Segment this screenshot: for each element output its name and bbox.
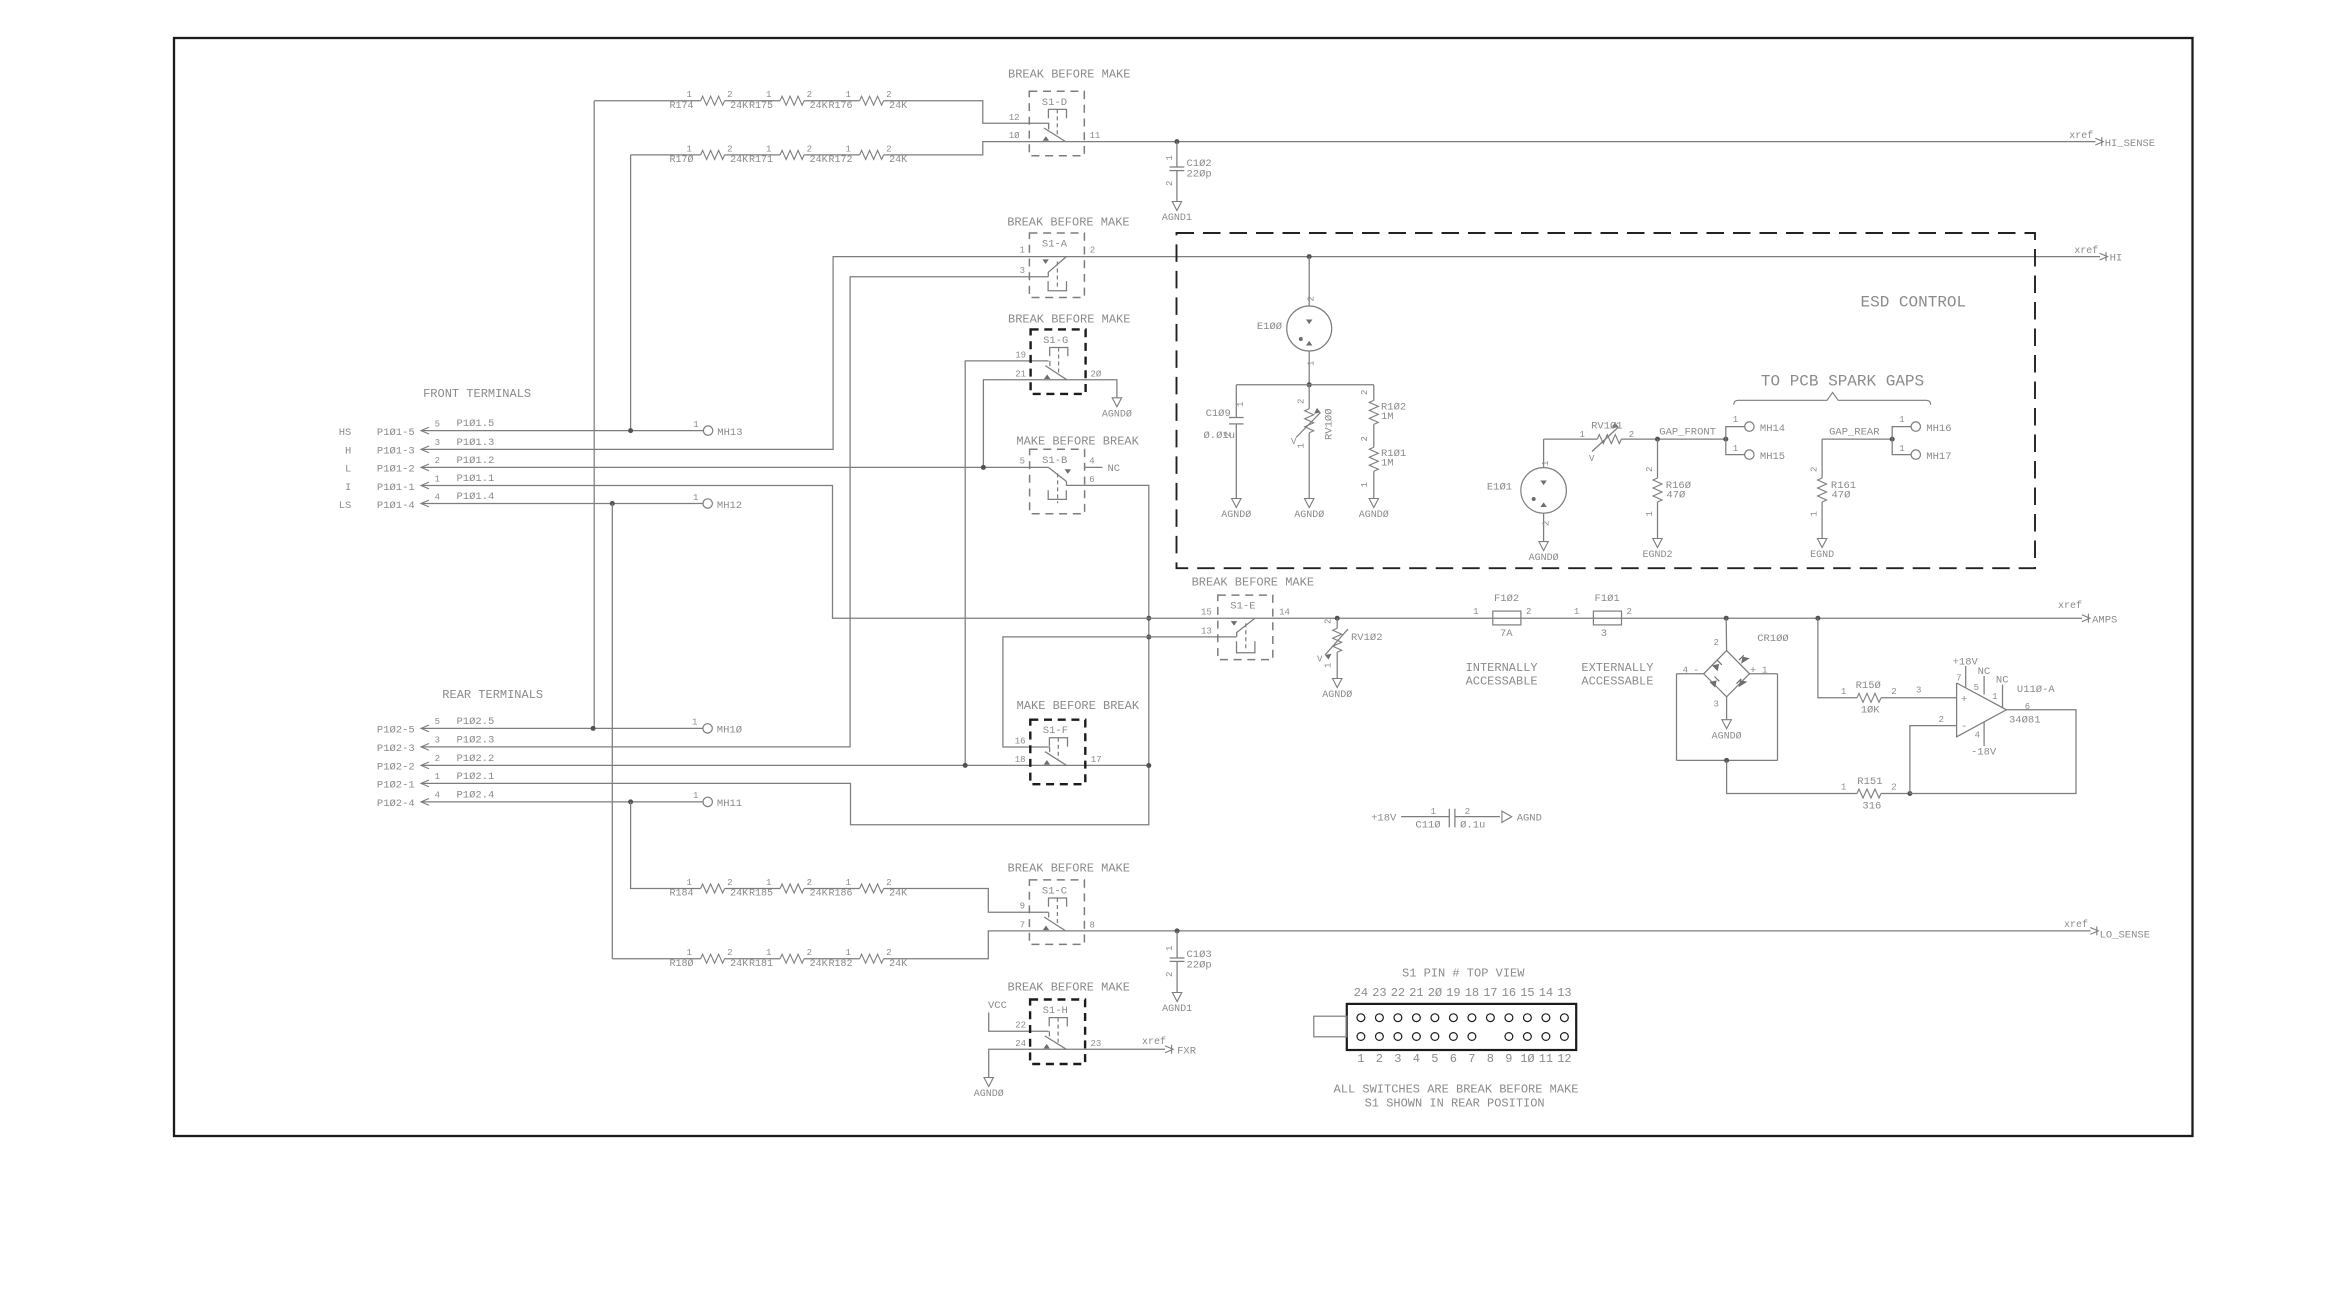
- wire GAP_REAR: [1822, 427, 1895, 442]
- wire E100 junction row: [1236, 382, 1374, 387]
- label ESD CONTROL: [1861, 294, 1967, 312]
- svg-text:1: 1: [1307, 361, 1317, 366]
- svg-text:AGNDØ: AGNDØ: [1322, 689, 1352, 701]
- svg-text:V: V: [1291, 437, 1297, 447]
- label BREAK BEFORE MAKE (S1-D): [1008, 67, 1130, 81]
- capacitor C102: [1165, 139, 1212, 201]
- svg-text:4: 4: [1975, 731, 1980, 741]
- resistor R172: [828, 144, 907, 166]
- svg-text:1: 1: [693, 791, 698, 801]
- svg-text:AGNDØ: AGNDØ: [974, 1088, 1004, 1100]
- svg-text:23: 23: [1091, 1039, 1102, 1049]
- terminal P101-5: [339, 418, 495, 439]
- svg-text:16: 16: [1502, 986, 1516, 1000]
- svg-text:7: 7: [1956, 674, 1961, 684]
- ground AGND0 (S1-H): [974, 1078, 1004, 1101]
- svg-text:6: 6: [1450, 1052, 1457, 1066]
- switch S1-F: [1015, 720, 1102, 785]
- svg-text:AGNDØ: AGNDØ: [1529, 552, 1559, 564]
- wire E101 to GAP_FRONT: [1544, 438, 1726, 440]
- svg-text:3: 3: [1713, 700, 1718, 710]
- svg-text:5: 5: [1020, 457, 1025, 467]
- connector S1 body: [1347, 1004, 1576, 1050]
- svg-text:2: 2: [1542, 521, 1552, 526]
- wire P102-3 row to S1-A pin 3: [421, 277, 1048, 747]
- label MAKE BEFORE BREAK (S1-F): [1017, 699, 1140, 713]
- svg-text:2: 2: [807, 144, 812, 154]
- ground AGND0 (S1-G pin 20): [1102, 398, 1132, 421]
- svg-text:1: 1: [1899, 444, 1904, 454]
- svg-text:4: 4: [1683, 666, 1688, 676]
- svg-text:22Øp: 22Øp: [1187, 960, 1212, 972]
- svg-text:P1Ø1-3: P1Ø1-3: [377, 446, 415, 458]
- svg-text:BREAK BEFORE MAKE: BREAK BEFORE MAKE: [1007, 216, 1129, 230]
- svg-text:1: 1: [1733, 444, 1738, 454]
- svg-text:R176: R176: [828, 101, 852, 112]
- terminal P102-4: [377, 789, 494, 810]
- svg-text:9: 9: [1020, 902, 1025, 912]
- svg-text:2: 2: [1165, 181, 1175, 186]
- svg-text:1Ø: 1Ø: [1520, 1052, 1534, 1066]
- varistor RV102: [1317, 616, 1383, 679]
- svg-text:6: 6: [1089, 475, 1094, 485]
- svg-text:1: 1: [1541, 461, 1551, 466]
- svg-text:24K: 24K: [810, 155, 828, 166]
- terminal P101-4: [339, 491, 495, 512]
- wire R151 to junction: [1881, 791, 1912, 796]
- svg-text:1: 1: [1236, 402, 1246, 407]
- svg-text:24K: 24K: [730, 155, 748, 166]
- svg-text:24K: 24K: [810, 889, 828, 900]
- resistor R102: [1360, 385, 1406, 425]
- svg-text:P1Ø1-5: P1Ø1-5: [377, 427, 415, 439]
- svg-text:6: 6: [2025, 702, 2030, 712]
- svg-text:NC: NC: [1108, 463, 1121, 475]
- wire R170 chain to S1-D pin 10 and HI_SENSE line: [631, 142, 2096, 155]
- svg-text:47Ø: 47Ø: [1832, 490, 1851, 502]
- svg-text:15: 15: [1201, 608, 1212, 618]
- mounting hole MH10: [692, 718, 742, 737]
- svg-text:3: 3: [1394, 1052, 1401, 1066]
- svg-text:R186: R186: [828, 889, 852, 900]
- svg-text:2: 2: [727, 948, 732, 958]
- svg-text:2: 2: [1891, 687, 1896, 697]
- svg-text:2: 2: [1360, 390, 1370, 395]
- svg-text:AGNDØ: AGNDØ: [1712, 730, 1742, 742]
- svg-text:xref: xref: [2069, 130, 2093, 142]
- svg-text:17: 17: [1091, 755, 1102, 765]
- wire bus D / R184 chain to S1-C pin 9: [631, 802, 1049, 912]
- svg-text:RV1Ø1: RV1Ø1: [1591, 421, 1623, 433]
- terminal P101-1: [345, 473, 494, 494]
- svg-text:1ØK: 1ØK: [1861, 705, 1881, 717]
- svg-text:24K: 24K: [730, 101, 748, 112]
- svg-text:24K: 24K: [889, 959, 907, 970]
- svg-text:34Ø81: 34Ø81: [2009, 715, 2041, 727]
- label BREAK BEFORE MAKE (S1-H): [1008, 980, 1130, 994]
- svg-text:2: 2: [1645, 467, 1655, 472]
- svg-text:8: 8: [1090, 921, 1095, 931]
- svg-text:-: -: [1693, 665, 1699, 677]
- svg-text:2: 2: [727, 878, 732, 888]
- fuse F101: [1574, 593, 1632, 640]
- svg-text:1M: 1M: [1381, 458, 1394, 470]
- resistor R150: [1841, 680, 1922, 717]
- svg-text:7A: 7A: [1500, 628, 1513, 640]
- svg-text:P1Ø2.1: P1Ø2.1: [457, 771, 495, 783]
- mounting hole MH17: [1892, 439, 1951, 463]
- switch S1-B: [1020, 449, 1095, 514]
- svg-text:2: 2: [886, 948, 891, 958]
- svg-text:5: 5: [1431, 1052, 1438, 1066]
- svg-text:2: 2: [1713, 638, 1718, 648]
- connector E101: [1487, 439, 1567, 541]
- svg-text:GAP_REAR: GAP_REAR: [1829, 427, 1880, 439]
- svg-text:2: 2: [727, 144, 732, 154]
- svg-text:P1Ø2-4: P1Ø2-4: [377, 798, 415, 810]
- svg-text:RV1ØØ: RV1ØØ: [1324, 408, 1336, 440]
- svg-text:7: 7: [1468, 1052, 1475, 1066]
- svg-text:5: 5: [1974, 683, 1979, 693]
- svg-text:BREAK BEFORE MAKE: BREAK BEFORE MAKE: [1008, 861, 1130, 875]
- wire S1-G pins 21-20 through switch: [1031, 379, 1086, 381]
- svg-text:P1Ø2-5: P1Ø2-5: [377, 725, 415, 737]
- svg-text:3: 3: [1601, 628, 1607, 640]
- wire bus B (R170 chain / P101-5): [630, 155, 632, 431]
- terminal P102-2: [377, 753, 494, 774]
- ground AGND0 (RV100): [1294, 499, 1324, 522]
- svg-text:EGND2: EGND2: [1642, 550, 1672, 561]
- svg-text:R17Ø: R17Ø: [669, 154, 693, 166]
- svg-text:1: 1: [1841, 687, 1846, 697]
- junction GAP_FRONT to MH14/MH15: [1723, 437, 1728, 442]
- labels S1 pins 24-13: [1354, 986, 1572, 1000]
- svg-text:AGNDØ: AGNDØ: [1221, 509, 1251, 521]
- wire P101-3 row to S1-A pin 1 and HI line: [421, 257, 2100, 450]
- svg-text:3: 3: [1020, 266, 1025, 276]
- svg-text:3: 3: [1916, 686, 1921, 696]
- brace spark gaps: [1734, 392, 1931, 404]
- svg-text:4: 4: [435, 791, 440, 801]
- svg-text:P1Ø1-4: P1Ø1-4: [377, 500, 415, 512]
- resistor R176: [828, 90, 907, 112]
- connector E100: [1257, 254, 1332, 385]
- svg-text:TO PCB SPARK GAPS: TO PCB SPARK GAPS: [1761, 372, 1924, 390]
- wire AMPS to R150 to op-amp +: [1818, 618, 1957, 698]
- svg-text:P1Ø1.4: P1Ø1.4: [457, 491, 495, 503]
- varistor RV101: [1579, 421, 1634, 465]
- svg-text:1: 1: [687, 948, 692, 958]
- svg-text:4: 4: [1089, 457, 1094, 467]
- svg-text:xref: xref: [2058, 600, 2082, 612]
- svg-text:1: 1: [1645, 511, 1655, 516]
- svg-text:P1Ø2-2: P1Ø2-2: [377, 762, 415, 774]
- svg-text:24K: 24K: [889, 155, 907, 166]
- resistor R161: [1810, 439, 1857, 538]
- svg-text:+: +: [1750, 665, 1756, 677]
- svg-text:13: 13: [1557, 986, 1571, 1000]
- svg-text:S1-H: S1-H: [1043, 1005, 1068, 1017]
- diode bridge CR100: [1677, 618, 1789, 760]
- svg-text:P1Ø2.2: P1Ø2.2: [457, 753, 495, 765]
- resistor R175: [749, 90, 828, 112]
- svg-text:S1-D: S1-D: [1042, 97, 1067, 109]
- op-amp U110-A: [1953, 657, 2056, 759]
- svg-text:S1-B: S1-B: [1042, 455, 1067, 467]
- label BREAK BEFORE MAKE (S1-A): [1007, 216, 1129, 230]
- wire P101-5 to MH13: [421, 428, 703, 433]
- svg-text:1: 1: [687, 90, 692, 100]
- svg-text:1: 1: [1165, 155, 1175, 160]
- label MAKE BEFORE BREAK (S1-B): [1016, 435, 1139, 449]
- svg-text:R175: R175: [749, 101, 773, 112]
- svg-text:BREAK BEFORE MAKE: BREAK BEFORE MAKE: [1008, 980, 1130, 994]
- switch S1-A: [1020, 233, 1096, 298]
- svg-text:24K: 24K: [730, 889, 748, 900]
- wire P101-1 row / S1-E pin 15 / AMPS line: [421, 486, 2082, 619]
- svg-text:R181: R181: [749, 959, 773, 970]
- wire CR100 pin3 to ground: [1726, 697, 1728, 720]
- junction S1-B6 net dots: [1146, 616, 1151, 768]
- label FRONT TERMINALS: [423, 387, 531, 401]
- border frame: [174, 38, 2193, 1136]
- svg-text:P1Ø2.5: P1Ø2.5: [457, 716, 495, 728]
- svg-text:2: 2: [1810, 467, 1820, 472]
- svg-text:47Ø: 47Ø: [1666, 490, 1685, 502]
- svg-text:EGND: EGND: [1810, 550, 1834, 561]
- wire P102-5 to MH10: [421, 726, 703, 731]
- ground AGND0 (R101): [1359, 499, 1389, 522]
- svg-text:1: 1: [766, 144, 771, 154]
- svg-text:24K: 24K: [889, 889, 907, 900]
- mounting hole MH12: [693, 493, 742, 512]
- svg-text:P1Ø1.1: P1Ø1.1: [457, 473, 495, 485]
- svg-text:1: 1: [1992, 692, 1997, 702]
- svg-text:REAR TERMINALS: REAR TERMINALS: [442, 688, 543, 702]
- svg-text:2Ø: 2Ø: [1428, 986, 1442, 1000]
- ground EGND: [1810, 539, 1834, 562]
- svg-text:AGNDØ: AGNDØ: [1294, 509, 1324, 521]
- switch S1-H: [1015, 1000, 1101, 1065]
- wire S1-G pin 21 from P101-2 row: [983, 380, 1030, 468]
- svg-text:VCC: VCC: [988, 1000, 1007, 1012]
- svg-text:18: 18: [1465, 986, 1479, 1000]
- svg-text:AGND: AGND: [1517, 813, 1542, 825]
- svg-text:AMPS: AMPS: [2092, 615, 2117, 627]
- svg-text:P1Ø1-2: P1Ø1-2: [377, 464, 415, 476]
- svg-text:HS: HS: [339, 427, 352, 439]
- svg-text:2: 2: [886, 90, 891, 100]
- svg-text:P1Ø2-3: P1Ø2-3: [377, 743, 415, 755]
- svg-text:2: 2: [1324, 619, 1334, 624]
- svg-text:14: 14: [1539, 986, 1553, 1000]
- wire feedback to op-amp -: [1910, 715, 1957, 794]
- wire op-amp output feedback loop: [1910, 710, 2076, 794]
- wire P102-2 row to S1-F pins 18/17: [421, 763, 1149, 768]
- svg-text:P1Ø2-1: P1Ø2-1: [377, 780, 415, 792]
- svg-text:2: 2: [886, 144, 891, 154]
- svg-text:1: 1: [693, 420, 698, 430]
- svg-text:LS: LS: [339, 500, 352, 512]
- svg-text:1: 1: [846, 878, 851, 888]
- svg-text:H: H: [345, 446, 351, 458]
- ESD CONTROL dashed box: [1177, 233, 2036, 568]
- svg-text:22: 22: [1391, 986, 1405, 1000]
- svg-text:1: 1: [846, 90, 851, 100]
- svg-text:MAKE BEFORE BREAK: MAKE BEFORE BREAK: [1016, 435, 1139, 449]
- svg-text:2: 2: [1090, 246, 1095, 256]
- ground AGND1 (C103): [1162, 993, 1192, 1016]
- xref HI: [2074, 245, 2122, 265]
- varistor RV100: [1291, 385, 1336, 499]
- wire bus A (R174 chain / P102-5): [593, 101, 595, 729]
- svg-text:1: 1: [1473, 607, 1478, 617]
- mounting hole MH13: [693, 420, 742, 439]
- svg-text:2: 2: [1526, 607, 1531, 617]
- svg-text:1: 1: [766, 90, 771, 100]
- svg-text:AGND1: AGND1: [1162, 213, 1192, 224]
- svg-text:ALL SWITCHES ARE BREAK BEFORE: ALL SWITCHES ARE BREAK BEFORE MAKE: [1334, 1082, 1579, 1096]
- svg-text:1M: 1M: [1381, 411, 1394, 423]
- svg-text:HI: HI: [2110, 253, 2123, 265]
- svg-text:2: 2: [1307, 296, 1317, 301]
- junction GAP_FRONT: [1655, 427, 1716, 442]
- svg-text:3: 3: [435, 438, 440, 448]
- wire P101-2 row to S1-B pin 5: [421, 466, 1048, 468]
- resistor R180: [669, 948, 748, 970]
- switch S1-C: [1020, 880, 1095, 945]
- xref LO_SENSE: [2064, 919, 2150, 942]
- svg-text:9: 9: [1505, 1052, 1512, 1066]
- svg-text:AGND1: AGND1: [1162, 1004, 1192, 1015]
- svg-text:S1-C: S1-C: [1042, 885, 1067, 897]
- svg-text:BREAK BEFORE MAKE: BREAK BEFORE MAKE: [1008, 67, 1130, 81]
- svg-text:HI_SENSE: HI_SENSE: [2105, 138, 2155, 150]
- svg-text:19: 19: [1446, 986, 1460, 1000]
- terminal P101-2: [345, 455, 494, 476]
- svg-text:1: 1: [1733, 415, 1738, 425]
- svg-text:P1Ø1.3: P1Ø1.3: [457, 437, 495, 449]
- svg-text:1: 1: [435, 474, 440, 484]
- svg-text:1: 1: [846, 948, 851, 958]
- svg-text:-18V: -18V: [1971, 747, 1997, 759]
- resistor R185: [749, 878, 828, 900]
- svg-text:Ø.1u: Ø.1u: [1460, 820, 1485, 832]
- svg-text:R182: R182: [828, 959, 852, 970]
- svg-text:2: 2: [807, 948, 812, 958]
- svg-text:1: 1: [1574, 607, 1579, 617]
- wire R180 chain to S1-C pin 7 and LO_SENSE line: [612, 931, 2090, 959]
- xref HI_SENSE: [2069, 130, 2155, 150]
- svg-text:5: 5: [435, 419, 440, 429]
- svg-text:CR1ØØ: CR1ØØ: [1757, 633, 1789, 645]
- svg-text:R171: R171: [749, 155, 773, 166]
- label REAR TERMINALS: [442, 688, 543, 702]
- junction CR100 bottom: [1724, 758, 1729, 763]
- svg-text:R184: R184: [669, 889, 693, 900]
- svg-text:1: 1: [766, 878, 771, 888]
- switch S1-G: [1015, 329, 1102, 394]
- wire S1-B pin 4 NC stub: [1085, 463, 1120, 475]
- svg-text:LO_SENSE: LO_SENSE: [2100, 930, 2150, 942]
- svg-text:2: 2: [1465, 807, 1470, 817]
- svg-text:MH14: MH14: [1760, 423, 1785, 435]
- svg-text:F1Ø2: F1Ø2: [1494, 593, 1519, 605]
- svg-text:S1-G: S1-G: [1043, 335, 1068, 347]
- svg-text:1: 1: [1762, 666, 1767, 676]
- svg-text:11: 11: [1539, 1052, 1553, 1066]
- svg-text:NC: NC: [1978, 666, 1991, 678]
- svg-text:22: 22: [1015, 1021, 1026, 1031]
- svg-text:MH13: MH13: [717, 427, 742, 439]
- svg-text:1: 1: [1360, 482, 1370, 487]
- svg-text:MH16: MH16: [1926, 423, 1951, 435]
- mounting hole MH16: [1892, 415, 1951, 439]
- junction AMPS / CR100: [1724, 616, 1729, 621]
- svg-text:1: 1: [1841, 783, 1846, 793]
- svg-text:2: 2: [727, 90, 732, 100]
- svg-text:S1-F: S1-F: [1043, 725, 1068, 737]
- svg-text:FXR: FXR: [1177, 1046, 1197, 1058]
- svg-text:ACCESSABLE: ACCESSABLE: [1581, 675, 1653, 689]
- svg-text:1: 1: [1357, 1052, 1364, 1066]
- svg-text:R185: R185: [749, 889, 773, 900]
- svg-text:AGNDØ: AGNDØ: [1359, 509, 1389, 521]
- resistor R186: [828, 878, 907, 900]
- wire S1-G pin 19 to P102-2 row: [965, 361, 1048, 766]
- svg-text:1Ø: 1Ø: [1009, 131, 1020, 141]
- connector S1 bottom row pins: [1357, 1033, 1568, 1041]
- svg-text:R151: R151: [1857, 776, 1882, 788]
- svg-text:2: 2: [1223, 432, 1233, 437]
- labels S1 pins 1-12: [1357, 1052, 1571, 1066]
- switch S1-E: [1201, 595, 1290, 660]
- svg-text:S1-A: S1-A: [1042, 239, 1068, 251]
- mounting hole MH15: [1726, 439, 1785, 463]
- svg-text:xref: xref: [2064, 919, 2088, 931]
- capacitor C109: [1203, 385, 1246, 499]
- svg-text:2: 2: [807, 878, 812, 888]
- connector S1 top row pins: [1357, 1014, 1568, 1022]
- connector S1 tab: [1314, 1016, 1347, 1037]
- svg-text:1: 1: [846, 144, 851, 154]
- note ALL SWITCHES: [1334, 1082, 1579, 1096]
- wire P101-4 to MH12: [421, 501, 703, 506]
- label BREAK BEFORE MAKE (S1-C): [1008, 861, 1130, 875]
- svg-text:R15Ø: R15Ø: [1856, 680, 1881, 692]
- svg-text:I: I: [345, 482, 351, 494]
- svg-text:2: 2: [807, 90, 812, 100]
- svg-text:E1Ø1: E1Ø1: [1487, 482, 1512, 494]
- svg-text:24: 24: [1354, 986, 1368, 1000]
- svg-text:2: 2: [1939, 715, 1944, 725]
- resistor R184: [669, 878, 748, 900]
- svg-text:+18V: +18V: [1953, 657, 1979, 669]
- junction P101-2 / S1-G21: [981, 465, 986, 470]
- xref FXR: [1142, 1036, 1197, 1058]
- svg-text:17: 17: [1483, 986, 1497, 1000]
- ground AGND0 (C109): [1221, 499, 1251, 522]
- svg-text:1: 1: [1297, 443, 1307, 448]
- svg-text:3: 3: [435, 736, 440, 746]
- svg-text:2: 2: [1297, 399, 1307, 404]
- svg-text:MH17: MH17: [1926, 451, 1951, 463]
- svg-text:C1Ø9: C1Ø9: [1206, 408, 1231, 420]
- svg-text:21: 21: [1409, 986, 1423, 1000]
- label S1 PIN # TOP VIEW: [1402, 967, 1525, 981]
- wire S1-G pin 20 to AGND0: [1086, 380, 1117, 398]
- resistor R171: [749, 144, 828, 166]
